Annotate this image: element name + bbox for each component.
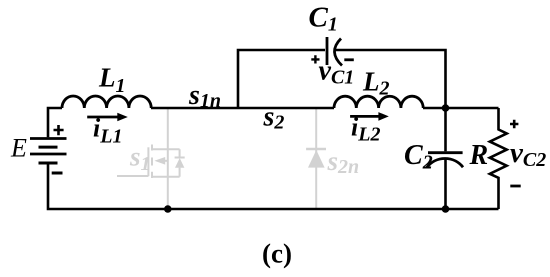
svg-text:R: R: [469, 140, 489, 171]
svg-text:s2: s2: [263, 102, 285, 134]
svg-text:s1: s1: [129, 142, 151, 176]
svg-text:L2: L2: [362, 67, 390, 100]
svg-text:(c): (c): [262, 239, 292, 269]
svg-text:s2n: s2n: [327, 146, 360, 178]
svg-text:s1n: s1n: [188, 80, 221, 112]
svg-text:C1: C1: [309, 2, 338, 36]
svg-text:vC2: vC2: [510, 137, 546, 171]
svg-text:E: E: [10, 134, 27, 163]
svg-text:L1: L1: [98, 63, 126, 98]
svg-text:C2: C2: [404, 140, 433, 173]
